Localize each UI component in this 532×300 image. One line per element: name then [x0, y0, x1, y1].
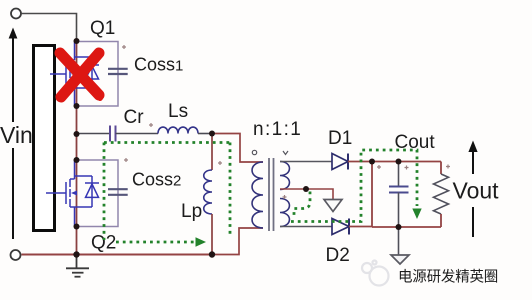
- label Ls: [168, 101, 188, 122]
- junction node D2 riser: [369, 159, 375, 165]
- transformer primary winding: [252, 162, 263, 228]
- label Vin: [0, 122, 33, 148]
- capacitor Cr: [110, 126, 116, 142]
- junction node source Q2: [74, 224, 80, 230]
- wire Lp bottom: [211, 214, 213, 255]
- watermark text: [398, 268, 498, 286]
- svg-text:Cout: Cout: [395, 132, 436, 153]
- label D2: [326, 245, 350, 266]
- junction node drain Q2: [74, 157, 80, 163]
- arrow Vin (up): [9, 28, 18, 240]
- transformer secondary top winding: [280, 162, 289, 190]
- wire Ls to node: [198, 133, 212, 135]
- svg-text:Coss1: Coss1: [134, 55, 183, 75]
- ground triangle center tap: [324, 200, 342, 212]
- svg-text:n:1:1: n:1:1: [253, 119, 302, 140]
- Q2 cell loop: [77, 160, 119, 227]
- wire left rail: [76, 41, 78, 255]
- label Coss1: [134, 55, 183, 75]
- label Q2: [91, 233, 116, 254]
- polarity mark secondary top: [283, 151, 288, 155]
- wire secondary top lead: [280, 161, 332, 163]
- load resistor: [434, 162, 449, 228]
- mosfet Q2: [46, 160, 99, 227]
- wire D1 cathode to load (top rail): [348, 161, 441, 163]
- current path secondary arrowhead: [412, 209, 421, 220]
- label Vout: [453, 178, 500, 204]
- capacitor Cout: [389, 162, 409, 228]
- current path primary loop (green dashed): [104, 143, 230, 243]
- junction node Cr branch: [74, 131, 80, 137]
- label D1: [328, 128, 352, 149]
- svg-text:Cr: Cr: [124, 107, 145, 128]
- plus polarity marks: [122, 45, 450, 199]
- junction node source Q1: [74, 103, 80, 109]
- terminal circle top-left: [11, 9, 21, 19]
- wire Cr branch: [77, 133, 110, 135]
- polarity mark primary: [252, 150, 256, 154]
- Q1 cell loop: [77, 42, 119, 107]
- inductor Lp: [204, 170, 212, 214]
- wire output riser D2 to top rail: [371, 162, 373, 227]
- wire D2 cathode: [349, 226, 372, 228]
- svg-text:Vin: Vin: [0, 122, 33, 148]
- svg-text:Q1: Q1: [90, 18, 115, 39]
- svg-text:Ls: Ls: [168, 101, 188, 122]
- wire bottom rail: [22, 254, 213, 256]
- wire secondary bottom lead: [280, 226, 332, 228]
- junction node Cout top: [396, 159, 402, 165]
- Vin source rectangle: [34, 46, 55, 231]
- wire input top: [22, 14, 77, 42]
- ground triangle output: [391, 227, 409, 264]
- wire transformer primary bottom: [212, 228, 263, 255]
- label Cr: [124, 107, 145, 128]
- svg-text:Lp: Lp: [181, 201, 202, 222]
- ground (3-bar): [66, 255, 89, 277]
- watermark logo: [362, 261, 389, 286]
- arrow Vout (up): [468, 141, 477, 238]
- svg-text:D1: D1: [328, 128, 352, 149]
- label Coss2: [132, 170, 181, 190]
- wire center tap: [280, 189, 333, 200]
- current path secondary loop (green dashed): [291, 150, 417, 222]
- wire node to transformer primary top: [212, 134, 263, 163]
- label Lp: [181, 201, 202, 222]
- junction node Cout bottom: [396, 224, 402, 230]
- capacitor Coss1: [108, 69, 128, 74]
- label Cout: [395, 132, 436, 153]
- transformer secondary bottom winding: [280, 199, 289, 227]
- terminal circle bottom-left: [11, 250, 21, 260]
- current path primary arrowhead: [196, 237, 207, 246]
- wire output bottom rail: [372, 226, 441, 228]
- junction node bottom rail: [73, 251, 79, 257]
- junction node drain Q1: [74, 38, 80, 44]
- diode D2: [332, 219, 349, 235]
- mosfet Q1: [50, 42, 99, 107]
- junction node Lp top: [209, 131, 215, 137]
- inductor Ls: [158, 127, 198, 133]
- svg-text:Q2: Q2: [91, 233, 116, 254]
- svg-text:D2: D2: [326, 245, 350, 266]
- svg-text:Vout: Vout: [453, 178, 500, 204]
- capacitor Coss2: [108, 189, 128, 195]
- svg-text:电源研发精英圈: 电源研发精英圈: [398, 268, 498, 286]
- junction node center tap: [303, 186, 309, 192]
- svg-text:Coss2: Coss2: [132, 170, 181, 190]
- diode D1: [332, 154, 348, 170]
- junction node Lp bottom: [209, 251, 215, 257]
- transformer core: [269, 158, 274, 231]
- label Q1: [90, 18, 115, 39]
- red X over Q1: [60, 53, 100, 98]
- wire Lp top: [211, 134, 213, 171]
- wire Cr to Ls: [116, 133, 159, 135]
- label n:1:1: [253, 119, 302, 140]
